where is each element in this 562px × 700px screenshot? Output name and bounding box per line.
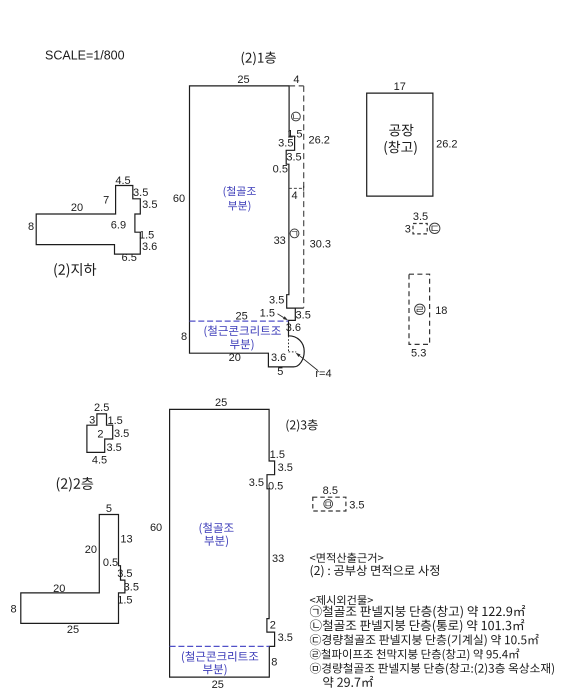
label: floor-1 title	[242, 51, 276, 65]
note: annex D desc	[310, 648, 519, 660]
svg-text:1.5: 1.5	[108, 415, 123, 427]
svg-text:3.5: 3.5	[124, 582, 139, 594]
svg-text:20: 20	[53, 583, 65, 595]
svg-text:20: 20	[229, 352, 241, 364]
svg-text:25: 25	[215, 397, 227, 409]
svg-text:3.5: 3.5	[278, 462, 293, 474]
svg-text:8: 8	[271, 656, 277, 668]
label: floor-3 title	[286, 419, 317, 432]
note: annex C desc	[310, 634, 539, 647]
marker B (circled nieun)	[292, 112, 301, 121]
svg-text:17: 17	[394, 81, 406, 93]
arc center hline dotted	[289, 351, 297, 353]
note: annex E desc line2	[323, 676, 373, 688]
svg-text:3.5: 3.5	[349, 499, 364, 511]
svg-text:1.5: 1.5	[260, 307, 275, 319]
note: annex header	[310, 595, 373, 605]
floor1 corridor bottom edge	[295, 307, 303, 309]
svg-text:3.6: 3.6	[142, 241, 157, 253]
svg-text:3: 3	[405, 223, 411, 235]
svg-text:33: 33	[274, 235, 286, 247]
label: basement title	[54, 263, 96, 278]
svg-text:25: 25	[237, 74, 249, 86]
svg-text:60: 60	[150, 522, 162, 534]
svg-text:4: 4	[291, 190, 297, 202]
svg-text:13: 13	[120, 534, 132, 546]
floor1 outline	[190, 86, 305, 367]
label f3 steel-frame line2	[205, 535, 228, 547]
label f1 steel-frame line2	[228, 201, 250, 212]
svg-text:60: 60	[173, 193, 185, 205]
label f3 RC line1	[182, 651, 258, 663]
svg-text:0.5: 0.5	[273, 164, 288, 176]
svg-text:3.5: 3.5	[142, 199, 157, 211]
svg-text:8: 8	[181, 331, 187, 343]
svg-text:3.5: 3.5	[133, 187, 148, 199]
floor2 main outline	[21, 515, 125, 624]
floor3 outline	[170, 409, 275, 677]
svg-text:8.5: 8.5	[323, 485, 338, 497]
svg-text:3.5: 3.5	[117, 568, 132, 580]
svg-text:20: 20	[71, 202, 83, 214]
svg-text:25: 25	[212, 679, 224, 691]
svg-text:r=4: r=4	[315, 368, 331, 380]
annex E dashed rect	[313, 497, 346, 511]
svg-text:3.5: 3.5	[114, 428, 129, 440]
note: annex B desc	[310, 619, 524, 632]
svg-text:20: 20	[85, 544, 97, 556]
svg-text:26.2: 26.2	[436, 138, 457, 150]
svg-text:3.5: 3.5	[278, 632, 293, 644]
svg-text:0.5: 0.5	[268, 480, 283, 492]
svg-text:3.5: 3.5	[278, 137, 293, 149]
label factory	[389, 124, 413, 136]
svg-text:18: 18	[435, 305, 447, 317]
svg-text:26.2: 26.2	[308, 134, 329, 146]
dim4 dashed line	[289, 187, 304, 189]
marker E (circled mieum)	[324, 500, 333, 509]
factory rect	[367, 93, 433, 196]
svg-text:3.6: 3.6	[271, 352, 286, 364]
svg-text:2.5: 2.5	[94, 402, 109, 414]
label f3 steel-frame line1	[200, 523, 234, 535]
annex C dashed rect	[413, 224, 427, 234]
svg-text:7: 7	[103, 194, 109, 206]
svg-text:25: 25	[235, 310, 247, 322]
corridor B right dashed	[303, 86, 305, 308]
svg-text:3.6: 3.6	[286, 322, 301, 334]
svg-text:3: 3	[89, 414, 95, 426]
label f1 steel-frame line1	[224, 186, 256, 197]
svg-text:6.9: 6.9	[111, 220, 126, 232]
svg-text:3.5: 3.5	[269, 295, 284, 307]
floor1 RC boundary blue dashed	[190, 320, 289, 322]
svg-text:5: 5	[106, 503, 112, 515]
label: floor-2 title	[57, 477, 93, 492]
arrow 1.5 step	[278, 314, 284, 318]
marker A (circled giyeok)	[290, 229, 299, 238]
label f1 RC line1	[204, 325, 280, 337]
arc center vline dotted	[288, 336, 290, 352]
svg-text:1.5: 1.5	[117, 594, 132, 606]
svg-text:2: 2	[97, 429, 103, 441]
svg-text:3.5: 3.5	[413, 211, 428, 223]
label f1 RC line2	[230, 339, 253, 351]
svg-text:8: 8	[28, 221, 34, 233]
corridor B top dashed	[289, 85, 304, 87]
note: annex A desc	[310, 605, 525, 618]
svg-text:30.3: 30.3	[310, 239, 331, 251]
svg-text:4: 4	[293, 74, 299, 86]
note: annex E desc line1	[310, 663, 554, 675]
dim4 tick left	[288, 186, 290, 191]
svg-text:0.5: 0.5	[103, 557, 118, 569]
svg-text:25: 25	[67, 624, 79, 636]
svg-text:3.5: 3.5	[286, 152, 301, 164]
svg-text:SCALE=1/800: SCALE=1/800	[45, 49, 125, 63]
floor3 RC boundary blue dashed	[170, 645, 270, 647]
svg-text:33: 33	[272, 553, 284, 565]
svg-text:6.5: 6.5	[122, 252, 137, 264]
annex D dashed rect	[409, 274, 430, 344]
svg-text:8: 8	[10, 603, 16, 615]
svg-text:4.5: 4.5	[92, 454, 107, 466]
svg-text:5: 5	[277, 366, 283, 378]
svg-text:3.5: 3.5	[249, 477, 264, 489]
label factory warehouse	[384, 141, 416, 155]
svg-text:4.5: 4.5	[115, 175, 130, 187]
marker D (circled rieul)	[415, 304, 425, 314]
svg-text:2: 2	[270, 620, 276, 632]
svg-text:5.3: 5.3	[411, 348, 426, 360]
note: area basis body	[311, 565, 439, 578]
note: area basis header	[310, 553, 383, 563]
svg-text:3.5: 3.5	[296, 309, 311, 321]
label f3 RC line2	[203, 664, 226, 676]
svg-text:1.5: 1.5	[270, 449, 285, 461]
marker C (circled digeut)	[430, 223, 440, 233]
svg-text:1.5: 1.5	[139, 229, 154, 241]
dim4 tick right	[303, 186, 305, 191]
floor2 small piece outline	[87, 414, 113, 453]
arrow r=4	[300, 356, 319, 371]
basement outline	[36, 186, 140, 255]
svg-text:3.5: 3.5	[107, 442, 122, 454]
